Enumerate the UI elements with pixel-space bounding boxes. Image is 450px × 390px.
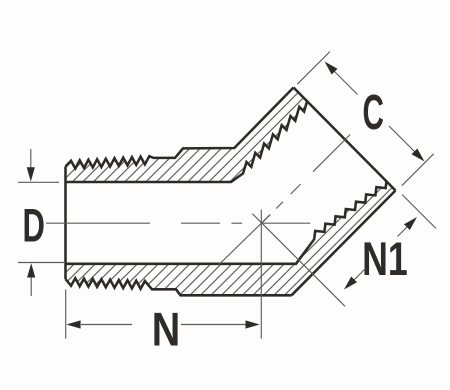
arrowhead N1 upper — [404, 217, 417, 230]
dimension N shaft right — [181, 324, 246, 326]
centerline horizontal — [232, 222, 243, 224]
dimension N1 shaft lower — [354, 270, 365, 281]
dimension N1 shaft upper — [398, 227, 408, 237]
C extension upper — [297, 52, 330, 85]
hatched wall: main pipe top + branch upper-left — [66, 88, 308, 183]
dimension C shaft lower — [389, 126, 415, 152]
dimension D shaft top — [30, 149, 32, 169]
label D — [23, 200, 45, 252]
arrowhead C lower — [412, 149, 425, 162]
svg-text:N1: N1 — [362, 232, 408, 285]
centerline horizontal — [181, 222, 220, 224]
left male end face — [64, 167, 67, 280]
label N1 — [362, 232, 408, 285]
centerline horizontal — [262, 222, 311, 224]
C extension lower — [402, 154, 434, 186]
construction line from center to lower-right (N1 extension) — [252, 214, 345, 307]
centerline horizontal — [46, 222, 150, 224]
svg-text:N: N — [152, 304, 181, 356]
arrowhead N1 lower — [344, 277, 357, 290]
label C — [362, 84, 383, 140]
arrowhead C upper — [325, 62, 338, 75]
svg-text:C: C — [362, 84, 383, 140]
N extension left — [65, 290, 67, 339]
hatched wall: main pipe bottom + branch lower-right — [66, 181, 396, 295]
construction line from center to lower-left — [219, 214, 271, 264]
arrowhead D bottom — [27, 263, 35, 277]
label N — [152, 304, 181, 356]
dimension D shaft bottom — [30, 276, 32, 296]
dimension N shaft left — [81, 324, 132, 326]
bore top line + female thread upper-left — [66, 102, 308, 183]
arrowhead N right — [246, 320, 260, 328]
D extension bottom — [18, 262, 64, 264]
branch end face — [294, 88, 396, 191]
svg-text:D: D — [23, 200, 45, 252]
N1 extension at branch face — [402, 195, 436, 229]
vertical construction line through center (N extension) — [260, 210, 262, 339]
branch lower-right outer edge — [292, 191, 396, 296]
bottom profile: body, shoulder, male thread — [66, 278, 292, 295]
bore bottom line + female thread lower-right — [66, 181, 387, 264]
D extension top — [18, 181, 59, 183]
top profile: male thread, shoulder, body, branch upper-left outer edge — [66, 88, 294, 169]
branch axis centerline (dash-dot) — [262, 215, 269, 222]
arrowhead D top — [27, 167, 35, 181]
dimension C shaft upper — [334, 71, 358, 95]
arrowhead N left — [66, 320, 80, 328]
